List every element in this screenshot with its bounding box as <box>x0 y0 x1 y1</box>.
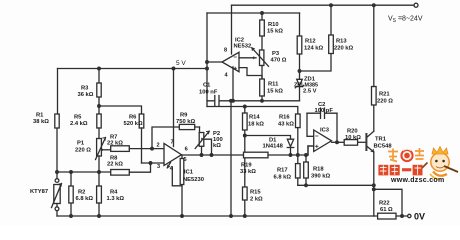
transistor TR1 <box>365 133 367 151</box>
wire R3/R6 row <box>99 106 142 114</box>
resistor pin5 ballast <box>181 155 183 216</box>
svg-text:R10: R10 <box>268 22 279 28</box>
capacitor C1 <box>207 100 231 102</box>
wire emitter to 0V node <box>374 189 402 216</box>
zener ZD1 <box>297 79 303 85</box>
wire IC3 +in <box>307 146 309 155</box>
capacitor C2 <box>307 112 337 114</box>
svg-text:15 kΩ: 15 kΩ <box>267 29 283 35</box>
svg-text:220 Ω: 220 Ω <box>75 148 91 154</box>
resistor R13 <box>300 5 332 71</box>
wire IC2 +in to P3 wiper <box>239 57 256 59</box>
potentiometer P1 <box>97 139 102 157</box>
svg-text:R14: R14 <box>249 115 260 121</box>
svg-text:R6: R6 <box>129 115 137 121</box>
svg-text:124 kΩ: 124 kΩ <box>304 46 324 52</box>
resistor R2 <box>70 172 72 216</box>
svg-text:22 kΩ: 22 kΩ <box>107 141 123 147</box>
wire bottom rail <box>57 215 374 217</box>
svg-text:750 kΩ: 750 kΩ <box>176 119 196 125</box>
svg-text:220 Ω: 220 Ω <box>377 99 393 105</box>
wire ref row y106.5 <box>207 107 298 115</box>
resistor R7 <box>111 146 130 152</box>
resistor R3 <box>98 69 100 115</box>
resistor R15 <box>244 158 246 216</box>
svg-text:10 kΩ: 10 kΩ <box>345 135 361 141</box>
resistor R22 <box>374 215 408 217</box>
resistor R10 <box>261 13 263 50</box>
potentiometer P3 <box>260 50 264 66</box>
wire IC1 output row <box>182 154 244 156</box>
wire 5V rail <box>58 68 208 70</box>
svg-text:kΩ: kΩ <box>213 143 221 149</box>
svg-text:2.4 kΩ: 2.4 kΩ <box>70 121 88 127</box>
svg-text:NE532: NE532 <box>234 44 252 50</box>
diode D1 <box>245 136 291 140</box>
svg-text:36 kΩ: 36 kΩ <box>78 92 94 98</box>
svg-text:R11: R11 <box>268 82 279 88</box>
svg-text:6: 6 <box>185 147 188 153</box>
svg-text:P1: P1 <box>77 141 85 147</box>
svg-text:IC3: IC3 <box>320 128 330 134</box>
wire inner top line <box>207 12 300 14</box>
svg-text:520 kΩ: 520 kΩ <box>124 121 144 127</box>
wire IC1 pin7 column <box>173 69 175 147</box>
svg-text:R15: R15 <box>250 190 261 196</box>
svg-text:15 kΩ: 15 kΩ <box>267 89 283 95</box>
svg-text:www.dzsc.com: www.dzsc.com <box>390 177 445 184</box>
svg-text:390 kΩ: 390 kΩ <box>311 174 331 180</box>
svg-text:NE5230: NE5230 <box>183 177 204 183</box>
resistor R9 <box>152 127 200 149</box>
resistor R4 <box>97 186 102 203</box>
wire bridge row y172 <box>57 171 111 173</box>
svg-text:5 V: 5 V <box>176 60 186 67</box>
svg-text:C1: C1 <box>203 83 211 89</box>
svg-text:R12: R12 <box>305 39 316 45</box>
svg-text:18 kΩ: 18 kΩ <box>248 122 264 128</box>
resistor R1 <box>56 69 59 173</box>
svg-text:R22: R22 <box>379 201 390 207</box>
pin 4 arrow IC1 <box>167 163 170 168</box>
svg-text:1N4148: 1N4148 <box>263 144 284 150</box>
svg-text:2 kΩ: 2 kΩ <box>250 197 263 203</box>
svg-text:6.8 kΩ: 6.8 kΩ <box>76 196 94 202</box>
svg-text:6.8 kΩ: 6.8 kΩ <box>274 175 292 181</box>
resistor R17 <box>296 164 301 178</box>
potentiometer P2 <box>199 127 201 133</box>
wire IC2 pin8 riser <box>231 5 233 54</box>
wire ground row y100.8 <box>231 100 300 102</box>
resistor R21 <box>372 87 377 106</box>
node 0V terminal <box>408 214 411 217</box>
svg-text:5: 5 <box>184 157 187 163</box>
svg-text:22 kΩ: 22 kΩ <box>107 162 123 168</box>
svg-text:IC1: IC1 <box>184 170 194 176</box>
svg-text:R19: R19 <box>241 163 252 169</box>
svg-text:220 kΩ: 220 kΩ <box>334 46 354 52</box>
svg-text:R1: R1 <box>36 113 44 119</box>
resistor R14 <box>244 107 246 153</box>
svg-text:470 Ω: 470 Ω <box>271 58 287 64</box>
svg-text:1.3 kΩ: 1.3 kΩ <box>107 196 125 202</box>
svg-text:33 kΩ: 33 kΩ <box>240 169 256 175</box>
svg-text:R16: R16 <box>279 115 290 121</box>
watermark logo circle <box>378 147 458 184</box>
svg-text:R13: R13 <box>336 39 347 45</box>
svg-text:7: 7 <box>171 140 174 146</box>
watermark orange char 1 <box>388 148 424 162</box>
node Vs terminal <box>414 3 418 7</box>
watermark red circle logo <box>400 149 413 162</box>
svg-text:P3: P3 <box>272 51 280 57</box>
resistor R11 <box>260 79 265 96</box>
resistor R20 <box>344 140 357 146</box>
resistor R5 <box>97 114 101 128</box>
svg-text:3: 3 <box>157 164 160 170</box>
resistor R6 <box>139 114 144 128</box>
wire feedback row y185.3 <box>298 184 374 186</box>
wire IC2 pin4 stub <box>232 67 234 101</box>
wire IC3 output row <box>332 141 345 143</box>
sensor KTY87 <box>56 172 58 179</box>
svg-text:0V: 0V <box>414 212 425 222</box>
op-amp IC3 <box>314 130 332 152</box>
svg-text:43 kΩ: 43 kΩ <box>278 122 294 128</box>
op-amp IC2 <box>222 52 239 71</box>
op-amp IC1 <box>164 144 182 166</box>
svg-text:R21: R21 <box>379 92 390 98</box>
svg-text:100 nF: 100 nF <box>199 90 218 96</box>
svg-text:TR1: TR1 <box>375 137 387 143</box>
wire top supply line <box>232 4 415 6</box>
watermark red text <box>378 165 422 176</box>
wire IC2 output <box>207 61 222 63</box>
svg-text:BC548: BC548 <box>374 144 393 150</box>
resistor R16 <box>296 114 301 128</box>
svg-text:R4: R4 <box>110 190 118 196</box>
svg-text:R18: R18 <box>313 167 324 173</box>
resistor R18 <box>305 155 307 185</box>
svg-text:2: 2 <box>157 143 160 149</box>
resistor R19 <box>244 152 269 158</box>
svg-text:8: 8 <box>224 48 227 54</box>
svg-text:R5: R5 <box>74 115 82 121</box>
svg-text:61 Ω: 61 Ω <box>380 207 393 213</box>
wire IC2 -in to R11 top <box>239 68 262 79</box>
svg-text:100 pF: 100 pF <box>315 108 334 114</box>
svg-text:R20: R20 <box>347 129 358 135</box>
svg-text:R3: R3 <box>81 86 89 92</box>
svg-text:R9: R9 <box>180 113 188 119</box>
node 5V junction dots <box>98 67 101 70</box>
svg-text:2.5 V: 2.5 V <box>303 89 317 95</box>
svg-text:KTY87: KTY87 <box>30 189 48 195</box>
wire ground drop x231 <box>230 101 232 216</box>
resistor R8 <box>111 170 130 176</box>
svg-text:38 kΩ: 38 kΩ <box>33 119 49 125</box>
IC3 input marks <box>316 136 318 148</box>
watermark brush <box>444 166 458 172</box>
svg-text:R2: R2 <box>78 190 85 196</box>
resistor R12 <box>299 13 301 79</box>
watermark mascot <box>431 153 449 171</box>
IC2 input marks <box>234 57 236 70</box>
svg-text:R17: R17 <box>277 168 288 174</box>
wire R6 to pin3 <box>142 162 165 164</box>
wire left box edge <box>206 13 208 107</box>
